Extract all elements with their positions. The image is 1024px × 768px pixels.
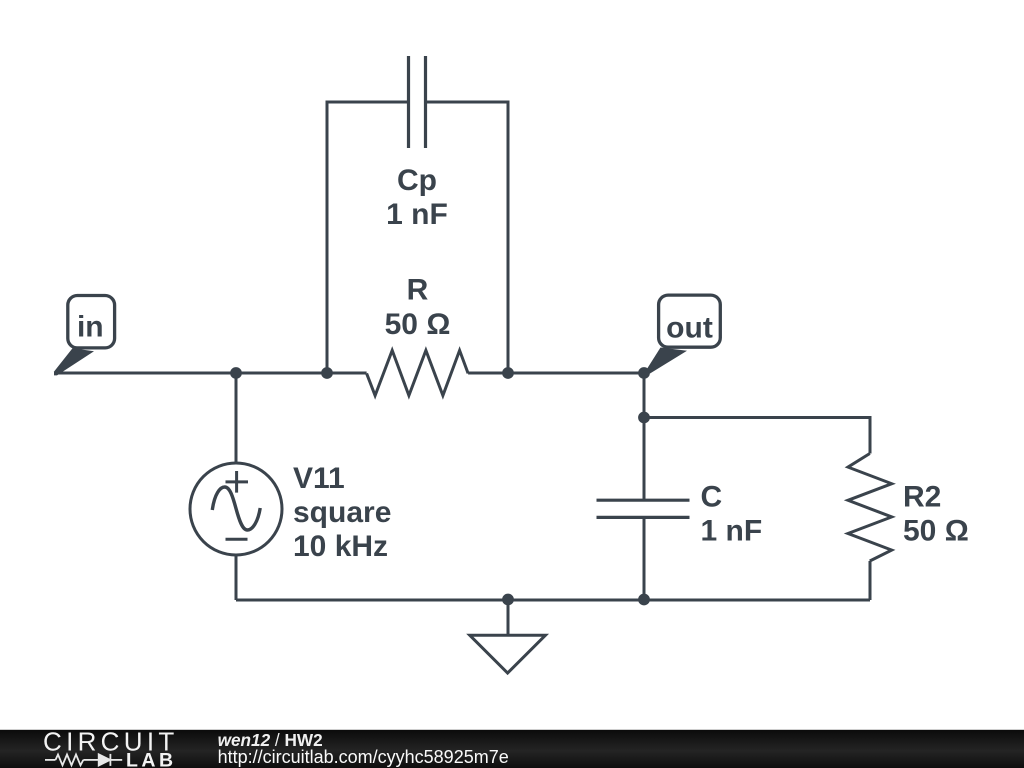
wire bottom rail <box>236 599 870 602</box>
capacitor Cp plates <box>409 56 426 148</box>
ground stem <box>507 600 510 635</box>
svg-text:Cp: Cp <box>397 164 437 197</box>
node junction C-R2 branch <box>638 412 650 424</box>
voltage source V11 circle <box>190 463 282 555</box>
wire branch to R2 top <box>644 418 870 454</box>
node junction V11 top <box>230 367 242 379</box>
wire out node down to C <box>643 373 646 500</box>
V11 minus sign <box>226 538 248 541</box>
resistor R zigzag <box>367 350 469 395</box>
wire main right segment <box>468 372 644 375</box>
wire V11 top lead <box>235 373 238 463</box>
wire V11 bottom lead <box>235 555 238 600</box>
svg-text:1 nF: 1 nF <box>701 515 763 548</box>
wire main in-to-out left segment <box>54 372 367 375</box>
svg-text:square: square <box>293 496 391 529</box>
svg-text:http://circuitlab.com/cyyhc589: http://circuitlab.com/cyyhc58925m7e <box>218 747 509 767</box>
svg-text:in: in <box>77 311 104 344</box>
node junction Cp-R left <box>321 367 333 379</box>
svg-text:LAB: LAB <box>126 749 177 768</box>
resistor R2 zigzag <box>848 454 892 562</box>
svg-text:R2: R2 <box>903 481 941 514</box>
ground triangle <box>470 635 546 673</box>
svg-text:1 nF: 1 nF <box>386 198 448 231</box>
node junction C bottom <box>638 594 650 606</box>
svg-text:V11: V11 <box>293 462 345 495</box>
V11 plus sign <box>226 471 249 493</box>
svg-text:out: out <box>666 312 713 345</box>
wire Cp loop right <box>426 102 508 373</box>
V11 sine wave <box>212 487 260 530</box>
CircuitLab logo resistor-diode glyph <box>45 754 122 766</box>
wire C bottom lead <box>643 517 646 600</box>
out flag tail <box>645 348 687 374</box>
svg-text:50 Ω: 50 Ω <box>385 308 451 341</box>
svg-text:R: R <box>407 274 429 307</box>
node junction ground <box>502 594 514 606</box>
out flag bubble <box>659 295 721 347</box>
node out <box>638 367 650 379</box>
svg-text:10 kHz: 10 kHz <box>293 530 388 563</box>
node junction Cp-R right <box>502 367 514 379</box>
capacitor C plates <box>597 500 690 517</box>
in flag tail <box>54 348 94 375</box>
wire Cp loop left <box>327 102 408 373</box>
wire R2 bottom lead <box>869 561 872 600</box>
in flag bubble <box>68 296 115 348</box>
svg-text:50 Ω: 50 Ω <box>903 515 969 548</box>
svg-text:C: C <box>701 481 723 514</box>
